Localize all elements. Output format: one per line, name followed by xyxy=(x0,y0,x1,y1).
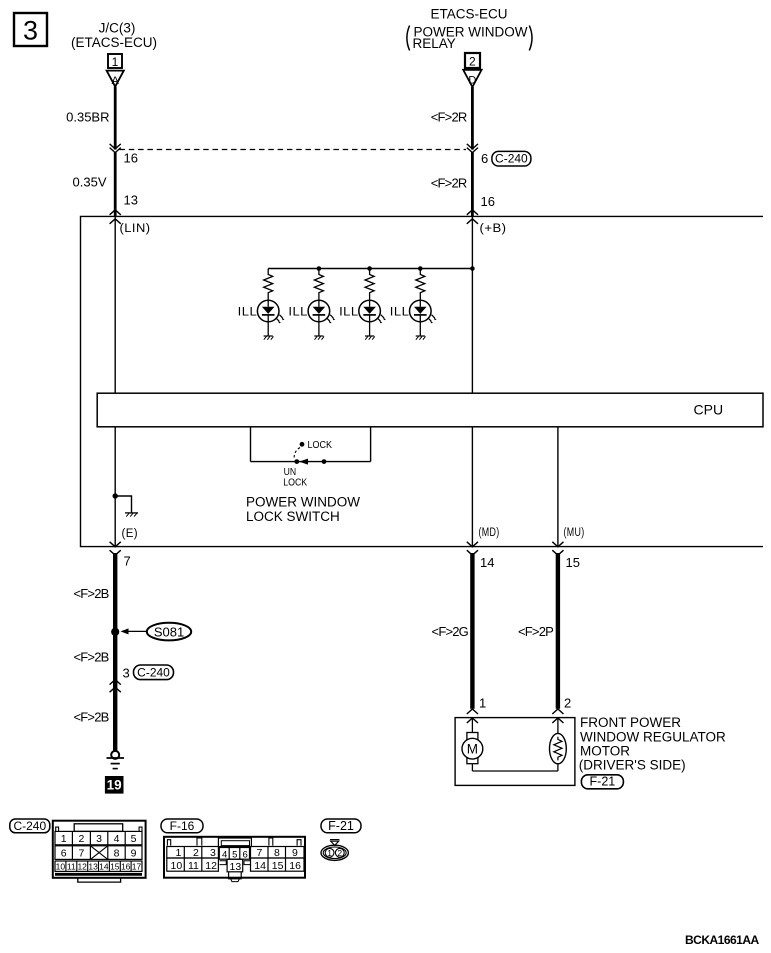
svg-text:3: 3 xyxy=(23,16,38,46)
svg-text:13: 13 xyxy=(88,862,98,872)
svg-text:16: 16 xyxy=(124,151,138,166)
svg-text:ILL: ILL xyxy=(288,306,308,318)
connector label C-240 top xyxy=(492,151,531,166)
wire MD internal xyxy=(471,427,473,547)
svg-text:11: 11 xyxy=(188,860,199,872)
svg-text:16: 16 xyxy=(481,194,495,209)
ground lamp 4 xyxy=(416,336,426,340)
svg-text:J/C(3): J/C(3) xyxy=(99,21,136,36)
svg-text:2: 2 xyxy=(193,847,199,859)
svg-text:FRONT POWER: FRONT POWER xyxy=(580,715,681,730)
svg-text:LOCK SWITCH: LOCK SWITCH xyxy=(246,509,340,524)
resistor lamp 1 xyxy=(264,269,273,307)
svg-text:16: 16 xyxy=(289,860,301,872)
svg-text:RELAY: RELAY xyxy=(413,36,456,51)
svg-text:D: D xyxy=(468,75,476,87)
svg-text:7: 7 xyxy=(78,847,84,859)
ground lamp 2 xyxy=(314,336,324,340)
svg-text:14: 14 xyxy=(480,555,494,570)
LED lamp ILL 3 xyxy=(339,300,386,336)
svg-text:(E): (E) xyxy=(122,528,139,540)
wire F2R lower right xyxy=(431,152,473,216)
LED lamp ILL 1 xyxy=(238,300,285,336)
F-16 pins 14-16 xyxy=(251,858,305,872)
svg-text:<F>2B: <F>2B xyxy=(73,650,108,665)
svg-text:15: 15 xyxy=(566,555,580,570)
wire +B internal xyxy=(471,216,473,393)
svg-text:(MU): (MU) xyxy=(564,527,585,539)
wire MU internal xyxy=(557,427,559,547)
svg-text:F-21: F-21 xyxy=(590,775,616,789)
svg-text:14: 14 xyxy=(254,860,266,872)
svg-text:10: 10 xyxy=(56,862,66,872)
svg-text:MOTOR: MOTOR xyxy=(580,744,630,759)
svg-text:12: 12 xyxy=(205,860,217,872)
connector C-240 pinout body xyxy=(53,821,146,878)
ground lamp 1 xyxy=(264,336,274,340)
resistor lamp 2 xyxy=(314,269,323,307)
svg-text:<F>2B: <F>2B xyxy=(73,710,108,725)
circuit breaker in motor xyxy=(550,718,567,771)
svg-text:(MD): (MD) xyxy=(479,527,500,539)
joint C-240 pin 3 xyxy=(110,665,174,692)
F-16 pins 7-9 xyxy=(251,847,305,860)
splice S081 xyxy=(111,623,191,641)
svg-text:15: 15 xyxy=(110,862,120,872)
box entry chevrons right xyxy=(467,210,478,224)
svg-text:C-240: C-240 xyxy=(137,665,170,679)
svg-text:14: 14 xyxy=(99,862,109,872)
svg-text:ILL: ILL xyxy=(238,306,258,318)
svg-text:9: 9 xyxy=(131,847,137,859)
C-240 pin row 2 xyxy=(55,846,142,860)
svg-text:9: 9 xyxy=(292,847,298,859)
illumination bus wire xyxy=(268,268,472,270)
svg-text:2: 2 xyxy=(564,696,571,711)
svg-text:ILL: ILL xyxy=(339,306,359,318)
svg-text:4: 4 xyxy=(114,833,120,845)
crossing chevrons C-240 pin 6 xyxy=(467,144,488,166)
connector label F-21 at motor xyxy=(581,775,623,789)
C-240 pin row 3 xyxy=(55,861,142,872)
svg-text:M: M xyxy=(467,742,478,757)
box exit chevrons E xyxy=(110,542,121,555)
svg-text:WINDOW REGULATOR: WINDOW REGULATOR xyxy=(580,729,726,744)
CPU block xyxy=(97,393,763,427)
svg-text:(ETACS-ECU): (ETACS-ECU) xyxy=(71,35,157,50)
C-240 pin row 1 xyxy=(55,831,142,845)
wire F2P xyxy=(518,553,558,709)
svg-text:(LIN): (LIN) xyxy=(120,223,151,235)
wire F2G xyxy=(432,553,473,709)
svg-text:6: 6 xyxy=(481,151,488,166)
svg-text:BCKA1661AA: BCKA1661AA xyxy=(685,933,760,947)
F-16 pins 4-6 xyxy=(219,848,249,861)
svg-text:3: 3 xyxy=(96,833,102,845)
connector F-16 pinout body xyxy=(164,837,305,878)
motor M driver side xyxy=(462,718,483,771)
svg-text:1: 1 xyxy=(61,833,67,845)
svg-text:A: A xyxy=(112,75,120,87)
sheet number box 3 xyxy=(14,13,47,46)
svg-text:F-16: F-16 xyxy=(170,819,195,833)
connector C-240 pinout label xyxy=(10,819,50,833)
svg-text:CPU: CPU xyxy=(694,402,724,418)
box exit chevrons MU xyxy=(552,542,563,555)
box exit chevrons MD xyxy=(467,542,478,555)
LED lamp ILL 4 xyxy=(390,300,437,336)
common contact dot xyxy=(322,459,327,464)
crossing chevrons C-240 pin 16 xyxy=(110,144,138,166)
svg-text:1: 1 xyxy=(327,848,332,858)
resistor lamp 4 xyxy=(416,269,425,307)
motor internal wire xyxy=(472,770,558,772)
svg-text:UN: UN xyxy=(284,467,297,478)
svg-text:C-240: C-240 xyxy=(495,152,528,166)
svg-text:2: 2 xyxy=(469,55,476,69)
svg-text:6: 6 xyxy=(61,847,67,859)
ground terminal 19 xyxy=(105,751,124,794)
wire 0.35V xyxy=(73,152,116,216)
svg-text:13: 13 xyxy=(230,861,242,873)
ground branch inside box xyxy=(113,493,139,516)
svg-text:0.35V: 0.35V xyxy=(73,175,107,190)
wire E internal xyxy=(114,427,116,547)
motor pin 1 xyxy=(467,696,486,724)
contact arrow xyxy=(299,459,308,465)
svg-text:3: 3 xyxy=(123,666,130,681)
svg-text:15: 15 xyxy=(272,860,284,872)
ground lamp 3 xyxy=(365,336,375,340)
svg-text:8: 8 xyxy=(114,847,120,859)
motor pin 2 xyxy=(552,696,571,724)
svg-text:10: 10 xyxy=(171,860,183,872)
C-240 bottom tab xyxy=(55,874,142,882)
box entry chevrons left xyxy=(110,210,121,224)
dashed contact arc xyxy=(294,448,300,459)
connector F-21 pinout body xyxy=(321,840,348,861)
svg-text:2: 2 xyxy=(78,833,84,845)
svg-text:12: 12 xyxy=(77,862,87,872)
svg-text:C-240: C-240 xyxy=(13,819,46,833)
svg-text:(DRIVER'S SIDE): (DRIVER'S SIDE) xyxy=(579,757,686,772)
F-16 pins 10-12 xyxy=(167,858,219,872)
svg-text:1: 1 xyxy=(112,55,119,69)
label front power window regulator motor xyxy=(579,715,726,772)
svg-text:2: 2 xyxy=(337,848,342,858)
svg-text:7: 7 xyxy=(124,554,131,569)
svg-text:1: 1 xyxy=(176,847,182,859)
svg-text:ILL: ILL xyxy=(390,306,410,318)
F-16 pins 1-3 xyxy=(167,847,219,860)
unlock contact dot xyxy=(294,459,299,464)
svg-text:8: 8 xyxy=(274,847,280,859)
connector terminal 1-A xyxy=(107,54,124,87)
svg-text:ETACS-ECU: ETACS-ECU xyxy=(430,7,507,22)
wire F2R upper right xyxy=(431,87,473,150)
label ETACS-ECU (POWER WINDOW RELAY) xyxy=(407,7,532,52)
wire LIN internal xyxy=(114,216,116,393)
svg-text:13: 13 xyxy=(124,193,138,208)
svg-text:16: 16 xyxy=(121,862,131,872)
label J/C(3) (ETACS-ECU) xyxy=(71,21,157,51)
wire 0.35BR xyxy=(66,87,115,150)
connector F-21 pinout label xyxy=(321,819,361,833)
connector terminal 2-D xyxy=(463,53,481,87)
svg-text:<F>2P: <F>2P xyxy=(518,624,553,639)
svg-text:11: 11 xyxy=(67,862,76,872)
LED lamp ILL 2 xyxy=(288,300,335,336)
power window lock switch xyxy=(246,427,371,524)
svg-text:S081: S081 xyxy=(154,624,184,639)
dashed junction line to C-240 xyxy=(120,149,467,151)
svg-text:7: 7 xyxy=(257,847,263,859)
svg-text:19: 19 xyxy=(107,778,122,793)
svg-text:5: 5 xyxy=(131,833,137,845)
svg-text:1: 1 xyxy=(479,696,486,711)
connector F-16 pinout label xyxy=(161,819,203,833)
svg-text:<F>2G: <F>2G xyxy=(432,624,469,639)
lock contact dot xyxy=(300,442,305,447)
svg-text:<F>2B: <F>2B xyxy=(73,586,108,601)
svg-text:LOCK: LOCK xyxy=(283,478,307,489)
svg-text:(+B): (+B) xyxy=(480,223,507,235)
svg-text:17: 17 xyxy=(132,862,142,872)
ETACS-ECU box outline xyxy=(81,216,764,546)
svg-text:0.35BR: 0.35BR xyxy=(66,110,109,125)
svg-text:POWER WINDOW: POWER WINDOW xyxy=(246,495,360,510)
svg-text:<F>2R: <F>2R xyxy=(431,110,467,125)
resistor lamp 3 xyxy=(365,269,374,307)
junction node dots on bus xyxy=(317,266,322,271)
motor box outline xyxy=(455,718,575,786)
svg-text:<F>2R: <F>2R xyxy=(431,176,467,191)
svg-text:LOCK: LOCK xyxy=(308,439,333,451)
F-16 pin 13 xyxy=(220,859,251,881)
svg-text:3: 3 xyxy=(210,847,216,859)
svg-text:F-21: F-21 xyxy=(328,819,354,833)
wire F2B to ground xyxy=(73,553,115,751)
